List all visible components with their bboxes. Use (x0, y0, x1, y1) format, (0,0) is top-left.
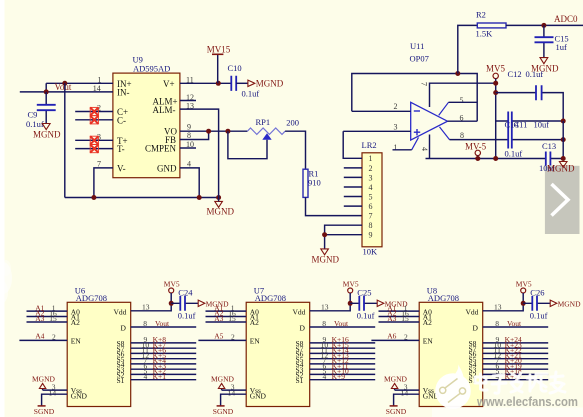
svg-text:10uf: 10uf (534, 120, 550, 130)
svg-text:Vout: Vout (55, 82, 72, 92)
wire GND U7 pin14 (221, 394, 247, 406)
svg-text:MGND: MGND (384, 374, 408, 383)
wire S6 U7 net K+14 (310, 352, 376, 354)
svg-text:MGND: MGND (558, 300, 582, 309)
svg-text:MV-5: MV-5 (465, 142, 487, 152)
svg-text:D: D (300, 323, 306, 332)
wire +input pin3 (343, 130, 411, 132)
wire A6 U8 EN pin2 (371, 339, 419, 341)
svg-text:13: 13 (142, 303, 150, 312)
wire S6 U8 net K+22 (483, 352, 549, 354)
wire Vdd U8 pin13 (483, 303, 524, 311)
ground SGND U7 (213, 406, 234, 416)
wire R1 bottom to LR2 pin7 (306, 197, 363, 215)
ground MGND under C15 (531, 58, 559, 74)
wire S1 U6 net K+1 (131, 379, 197, 381)
svg-text:13: 13 (494, 303, 502, 312)
svg-text:A2: A2 (71, 318, 80, 327)
svg-text:EN: EN (71, 337, 82, 346)
wire S7 U7 net K+15 (310, 347, 376, 349)
wire S8 U8 net K+24 (483, 342, 549, 344)
svg-text:1: 1 (394, 143, 398, 152)
watermark gray chevron box (545, 166, 580, 234)
svg-text:www.elecfans.com: www.elecfans.com (476, 394, 578, 409)
svg-text:K+9: K+9 (332, 372, 346, 381)
svg-text:0.1uf: 0.1uf (526, 69, 544, 79)
svg-text:MGND: MGND (312, 255, 340, 265)
wire LR2 pin9 (325, 235, 362, 249)
svg-text:0.1uf: 0.1uf (505, 149, 523, 159)
node rail end (216, 195, 221, 200)
wire ALM- pin13 to MGND (180, 109, 219, 197)
capacitor C13 (546, 152, 551, 166)
svg-text:EN: EN (250, 337, 261, 346)
svg-text:SGND: SGND (34, 407, 55, 416)
svg-text:C24: C24 (178, 287, 193, 297)
svg-text:S1: S1 (296, 376, 304, 385)
svg-text:2: 2 (394, 102, 398, 111)
wire V- bottom rail (426, 158, 564, 160)
capacitor C12 (496, 85, 564, 121)
svg-text:MV15: MV15 (207, 44, 231, 54)
wire R2 input riser (458, 25, 478, 73)
wire S5 U7 net K+13 (310, 358, 376, 360)
wire S3 U7 net K+11 (310, 368, 376, 370)
stub ALM+ pin12 (180, 100, 196, 102)
wire S3 U6 net K+3 (131, 368, 197, 370)
svg-text:0.1uf: 0.1uf (178, 311, 196, 321)
capacitor C9 (37, 92, 56, 124)
wire Vss U8 pin3 (395, 389, 420, 391)
wire A3 U6 pin15 (27, 321, 68, 323)
power port MGND U6 Vdd (198, 300, 229, 309)
wire RP1 right lead to R1 (285, 131, 305, 169)
node MV5 to pin7 (493, 81, 498, 86)
wire A5 U7 EN pin2 (198, 339, 246, 341)
capacitors C14 C11 plates (508, 112, 512, 149)
svg-text:1uf: 1uf (556, 42, 568, 52)
watermark white smudge left edge (0, 260, 12, 304)
svg-text:LR2: LR2 (362, 140, 377, 150)
svg-text:2: 2 (52, 333, 56, 342)
svg-text:C11: C11 (514, 120, 528, 130)
node LR2 pin8/9 (322, 232, 327, 237)
stub LR2 pin3 (344, 176, 362, 178)
node V+ MV15 junction (216, 81, 221, 86)
wire D U6 pin8 Vout (131, 326, 197, 328)
wire A2 U8 pin16 (379, 316, 420, 318)
no-ERC mark on T- (90, 145, 98, 153)
capacitor C15 (535, 25, 554, 57)
wire right vertical to C13 (562, 121, 564, 159)
LR2 body (362, 153, 382, 247)
stub LR2 pin6 (344, 205, 362, 207)
svg-text:7: 7 (419, 82, 428, 86)
svg-text:2: 2 (404, 333, 408, 342)
no-ERC mark on T+ (90, 136, 98, 144)
svg-text:5: 5 (460, 96, 464, 105)
IC U7 body (246, 302, 310, 406)
wire V- pin7 (94, 168, 113, 198)
svg-text:2: 2 (231, 333, 235, 342)
svg-text:GND: GND (157, 163, 177, 173)
wire S8 U6 net K+8 (131, 342, 197, 344)
svg-text:A2: A2 (423, 318, 432, 327)
wire A4 U6 EN pin2 (19, 339, 67, 341)
svg-text:SGND: SGND (386, 407, 407, 416)
wire S2 U8 net K+18 (483, 373, 549, 375)
svg-text:3: 3 (369, 173, 373, 182)
wire S5 U6 net K+5 (131, 358, 197, 360)
wire pin4 V- (429, 135, 431, 159)
svg-text:8: 8 (369, 221, 373, 230)
wire S1 U7 net K+9 (310, 379, 376, 381)
node on IN- wire (44, 89, 49, 94)
potentiometer RP1 (247, 128, 285, 140)
wire S6 U6 net K+6 (131, 352, 197, 354)
svg-text:A3: A3 (214, 314, 223, 323)
ground MGND U8 Vss (384, 374, 408, 388)
svg-text:A5: A5 (214, 332, 223, 341)
wire LR2 pin1 to op-amp +input (343, 131, 362, 158)
svg-text:A3: A3 (35, 314, 44, 323)
svg-text:MGND: MGND (211, 374, 235, 383)
wire C+ pin2 (75, 111, 113, 113)
svg-text:A4: A4 (35, 332, 44, 341)
power port MV5 op-amp (486, 64, 506, 159)
stub LR2 pin2 (344, 167, 362, 169)
svg-text:C10: C10 (228, 63, 242, 73)
node GND to rail (197, 195, 202, 200)
svg-text:15: 15 (401, 314, 409, 323)
svg-text:C-: C- (117, 115, 126, 125)
ground MGND U6 Vss (32, 374, 56, 388)
resistor R2 (477, 23, 506, 28)
ground MGND under C9 (33, 124, 61, 140)
svg-text:A3: A3 (387, 314, 396, 323)
svg-text:ADG708: ADG708 (428, 293, 459, 303)
stub LR2 pin4 (344, 186, 362, 188)
svg-text:9: 9 (369, 231, 373, 240)
svg-text:6: 6 (369, 202, 373, 211)
power port MV15 (207, 44, 231, 83)
svg-text:15: 15 (228, 314, 236, 323)
wire A1 U7 pin1 (206, 310, 247, 312)
wire S1 U8 net K+17 (483, 379, 549, 381)
svg-text:GND: GND (250, 391, 267, 400)
wire Vdd U6 pin13 (131, 303, 172, 311)
power port MGND U8 Vdd (550, 300, 581, 309)
wire feedback loop (352, 74, 477, 122)
svg-text:5: 5 (369, 192, 373, 201)
node rail C14 right (561, 119, 566, 124)
svg-text:3: 3 (394, 123, 398, 132)
no-ERC mark on C+ (90, 107, 98, 115)
op-amp U11 triangle (411, 102, 450, 150)
svg-text:0.1uf: 0.1uf (26, 119, 44, 129)
power port MV5 U8 (516, 280, 532, 304)
svg-text:Vdd: Vdd (114, 307, 127, 316)
node MV5 vertical rail (493, 156, 498, 161)
svg-text:Vout: Vout (155, 319, 170, 328)
stub pin5 U11 (449, 101, 478, 103)
svg-text:910: 910 (308, 178, 321, 188)
svg-text:Vdd: Vdd (293, 307, 306, 316)
wire C- pin (75, 119, 113, 121)
svg-text:10K: 10K (363, 247, 379, 257)
stub CMPEN pin10 (180, 147, 196, 149)
IC U6 body (67, 302, 131, 406)
svg-text:13: 13 (321, 303, 329, 312)
wire R2 to ADC0 (506, 24, 583, 26)
wire GND U6 pin14 (42, 394, 68, 406)
capacitor C24 (171, 296, 198, 311)
wire S5 U8 net K+21 (483, 358, 549, 360)
svg-text:C12: C12 (508, 69, 522, 79)
ground MGND U7 Vss (211, 374, 235, 388)
svg-text:8: 8 (495, 319, 499, 328)
svg-text:C9: C9 (28, 110, 38, 120)
svg-text:ALM-: ALM- (153, 105, 176, 115)
IC U9 body (113, 73, 180, 178)
node C13 right rail (561, 156, 566, 161)
svg-text:ADC0: ADC0 (554, 14, 578, 24)
svg-text:A6: A6 (387, 332, 396, 341)
svg-text:A2: A2 (250, 318, 259, 327)
svg-text:C13: C13 (542, 141, 556, 151)
wire Vss U6 pin3 (43, 389, 68, 391)
svg-text:RP1: RP1 (256, 117, 271, 127)
svg-text:MGND: MGND (547, 164, 575, 174)
svg-text:MGND: MGND (256, 79, 284, 89)
svg-text:Vout: Vout (334, 319, 349, 328)
wire -input pin2 (352, 110, 411, 112)
ground MGND right of C13 (547, 162, 575, 174)
svg-text:EN: EN (423, 337, 434, 346)
node V- to rail (91, 195, 96, 200)
wire LR2 pin8 (325, 225, 362, 235)
svg-text:4: 4 (420, 147, 429, 151)
wire T+ pin3 (75, 139, 113, 141)
wire IN+ pin1 (46, 83, 113, 92)
wire S7 U6 net K+7 (131, 347, 197, 349)
svg-text:AD595AD: AD595AD (133, 63, 170, 73)
node ADC0 (541, 23, 546, 28)
node wiper-VO (225, 129, 230, 134)
wire pin7 V+ (430, 83, 496, 107)
svg-text:C26: C26 (530, 287, 544, 297)
wire S4 U6 net K+4 (131, 363, 197, 365)
wire S3 U8 net K+19 (483, 368, 549, 370)
svg-text:0.1uf: 0.1uf (242, 89, 260, 99)
svg-text:0.1uf: 0.1uf (530, 311, 548, 321)
svg-text:MGND: MGND (33, 130, 61, 140)
svg-text:4: 4 (369, 183, 373, 192)
node on IN+ wire (62, 81, 67, 86)
wire C14 rail (496, 120, 564, 122)
node feedback to R2 (455, 71, 460, 76)
ground SGND U8 (386, 406, 407, 416)
power port MV5 U6 (164, 280, 180, 304)
wire A1 U6 pin1 (27, 310, 68, 312)
stub LR2 pin5 (344, 196, 362, 198)
wire GND U8 pin14 (394, 394, 420, 406)
svg-text:D: D (121, 323, 127, 332)
node rail C11 right (561, 137, 566, 142)
wire output pin6 (448, 120, 478, 122)
wire FB pin8 riser (180, 131, 209, 139)
svg-text:8: 8 (460, 131, 464, 140)
wire S7 U8 net K+23 (483, 347, 549, 349)
svg-text:0.1uf: 0.1uf (357, 311, 375, 321)
wire Vss U7 pin3 (222, 389, 247, 391)
wire IN- pin14 Vout net (20, 91, 113, 93)
svg-text:MV5: MV5 (486, 64, 506, 74)
ground SGND U6 (34, 406, 55, 416)
node FB-VO (206, 129, 211, 134)
svg-text:MGND: MGND (207, 206, 235, 216)
stub pin1 U11 (393, 149, 412, 151)
wire S4 U8 net K+20 (483, 363, 549, 365)
svg-text:R2: R2 (476, 9, 486, 19)
svg-text:4: 4 (323, 372, 327, 381)
wire D U7 pin8 Vout (310, 326, 376, 328)
svg-text:MGND: MGND (32, 374, 56, 383)
svg-text:200: 200 (286, 118, 299, 128)
ground MGND under LR2 (312, 249, 340, 265)
svg-text:K+1: K+1 (153, 372, 167, 381)
svg-text:1.5K: 1.5K (476, 28, 494, 38)
svg-text:7: 7 (369, 212, 373, 221)
svg-text:S1: S1 (117, 376, 125, 385)
node MV5 U6 (169, 301, 174, 306)
wire pin8 C11 rail (450, 139, 564, 141)
wire S2 U6 net K+2 (131, 373, 197, 375)
node MV5 to C12 (493, 90, 498, 95)
svg-text:D: D (473, 323, 479, 332)
svg-text:2: 2 (369, 164, 373, 173)
wire GND pin4 (180, 168, 199, 198)
power port MV5 U7 (343, 280, 359, 304)
wire A2 U6 pin16 (27, 316, 68, 318)
capacitor C10 (231, 76, 248, 91)
watermark chinese characters (475, 372, 565, 393)
watermark white fade bottom right (432, 408, 583, 417)
svg-text:GND: GND (71, 391, 88, 400)
IC U8 body (419, 302, 483, 406)
svg-text:C25: C25 (357, 287, 371, 297)
svg-text:Vdd: Vdd (466, 307, 479, 316)
svg-text:Vout: Vout (507, 319, 522, 328)
wire A1 U8 pin1 (379, 310, 420, 312)
resistor R1 (303, 169, 308, 197)
power port MGND U7 Vdd (377, 300, 408, 309)
power port MGND after C10 (248, 79, 284, 89)
svg-text:1: 1 (369, 154, 373, 163)
svg-text:T-: T- (117, 144, 125, 154)
svg-text:ADG708: ADG708 (255, 293, 286, 303)
wire RP1 wiper loop (228, 131, 267, 159)
svg-text:ADG708: ADG708 (76, 293, 107, 303)
wire S4 U7 net K+12 (310, 363, 376, 365)
node MV5 U7 (348, 301, 353, 306)
svg-text:OP07: OP07 (410, 54, 429, 64)
wire S2 U7 net K+10 (310, 373, 376, 375)
capacitor C25 (350, 296, 377, 311)
wire S8 U7 net K+16 (310, 342, 376, 344)
svg-text:V-: V- (117, 163, 126, 173)
svg-text:U11: U11 (410, 41, 424, 51)
svg-text:15: 15 (49, 314, 57, 323)
power port MV-5 (465, 142, 487, 159)
svg-text:V+: V+ (163, 79, 175, 89)
white left margin stripe (0, 0, 5, 417)
node MV-5 rail (475, 156, 480, 161)
svg-text:8: 8 (143, 319, 147, 328)
capacitor C26 (523, 296, 550, 311)
wire T- pin (75, 148, 113, 150)
svg-text:IN-: IN- (117, 88, 130, 98)
wire VO pin9 (180, 130, 248, 132)
wire V+ pin11 (180, 82, 231, 84)
svg-text:SGND: SGND (213, 407, 234, 416)
wire D U8 pin8 Vout (483, 326, 549, 328)
node MV5 U8 (521, 301, 526, 306)
svg-text:CMPEN: CMPEN (145, 144, 177, 154)
wire A3 U7 pin15 (206, 321, 247, 323)
wire Vdd U7 pin13 (310, 303, 351, 311)
wire A2 U7 pin16 (206, 316, 247, 318)
svg-text:8: 8 (322, 319, 326, 328)
wire A3 U8 pin15 (379, 321, 420, 323)
svg-text:4: 4 (144, 372, 148, 381)
ground MGND under rail (207, 198, 235, 217)
no-ERC mark on C- (90, 116, 98, 124)
watermark logo circle (435, 365, 471, 409)
wire left vertical to bottom rail (65, 83, 219, 197)
